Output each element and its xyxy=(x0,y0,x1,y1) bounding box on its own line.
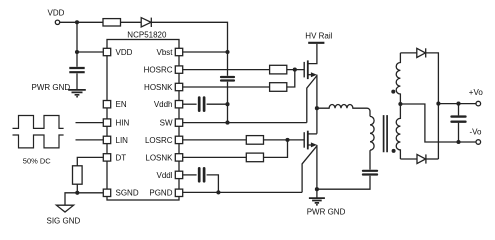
wire bootstrap cap to Vddh node xyxy=(227,82,229,105)
node secondary center tap xyxy=(398,102,402,106)
drain stub xyxy=(308,44,317,64)
svg-text:50% DC: 50% DC xyxy=(23,156,52,165)
wire Vddh pin to cap xyxy=(183,103,197,105)
capacitor bootstrap Vbst-SW xyxy=(221,77,234,81)
svg-text:HV Rail: HV Rail xyxy=(305,31,332,40)
pin DT xyxy=(103,154,110,161)
wire HOSRC resistor to gate node xyxy=(287,69,304,71)
wire VDD terminal to resistor xyxy=(60,21,103,23)
node output cap top xyxy=(456,102,460,106)
svg-text:HOSNK: HOSNK xyxy=(144,83,173,92)
wire Vddh cap to node xyxy=(207,103,228,105)
wire bypass cap to PWR GND xyxy=(76,73,78,89)
svg-text:HIN: HIN xyxy=(116,119,130,128)
node Vddl cap on PGND line xyxy=(216,190,220,194)
wire SW pin to high-side source leg xyxy=(183,122,307,124)
wire HOSNK resistor up to gate node xyxy=(287,70,295,87)
wire Vddl pin to cap xyxy=(183,174,197,176)
pin VDD xyxy=(103,48,110,55)
wire Vddh node to SW line xyxy=(227,104,229,122)
wire PGND pin to low-side source leg xyxy=(183,191,302,193)
pin LOSRC xyxy=(175,136,182,143)
wire +Vo line xyxy=(438,103,476,105)
transistor Q2 low-side MOSFET xyxy=(302,131,317,193)
polarity dot lower winding xyxy=(392,149,396,153)
svg-text:PWR GND: PWR GND xyxy=(32,83,71,92)
signal source HIN square wave xyxy=(13,116,64,129)
resistor LOSRC gate xyxy=(246,136,263,145)
source diagonal lead xyxy=(307,76,317,123)
channel bar xyxy=(307,60,309,79)
resistor HOSNK gate xyxy=(270,83,287,92)
transformer core xyxy=(384,115,388,152)
node +Vo rail junction xyxy=(436,102,440,106)
wire resistor to bootstrap diode xyxy=(121,21,142,23)
node -Vo terminal xyxy=(476,140,481,145)
wire Vbst pin to bootstrap node xyxy=(183,51,228,53)
ground PWR GND (left) xyxy=(68,90,86,97)
pin HIN xyxy=(103,119,110,126)
diode bootstrap xyxy=(141,18,151,27)
svg-text:DT: DT xyxy=(116,153,127,162)
wire LIN xyxy=(76,139,104,141)
source stub with arrow xyxy=(308,74,312,76)
pin Vbst xyxy=(175,48,182,55)
pin SGND xyxy=(103,189,110,196)
capacitor Vddl decoupling xyxy=(199,168,204,181)
svg-text:LIN: LIN xyxy=(116,136,129,145)
wire LOSRC resistor to gate node xyxy=(264,139,305,141)
wire low-side source to ground xyxy=(316,145,318,189)
gate bar xyxy=(303,62,305,78)
resistor VDD bootstrap series xyxy=(103,19,121,26)
wire VDD rail down to VDD pin xyxy=(76,22,78,52)
drain stub xyxy=(308,133,317,135)
node Vddh junction xyxy=(225,102,229,106)
svg-text:Vddl: Vddl xyxy=(156,171,172,180)
wire LOSRC pin to gate resistor xyxy=(183,139,247,141)
svg-text:HOSRC: HOSRC xyxy=(144,66,173,75)
wire DT pin to dead-time resistor xyxy=(77,157,103,165)
power rail HV Rail bar xyxy=(308,42,324,44)
pin Vddh xyxy=(175,101,182,108)
wire top diode to +Vo rail xyxy=(426,53,439,159)
pin LIN xyxy=(103,136,110,143)
diode rectifier bottom xyxy=(417,154,426,163)
wire LOSNK resistor up to gate node xyxy=(264,140,288,158)
wire output cap bottom leg xyxy=(458,123,460,142)
node Vbst junction xyxy=(225,50,229,54)
pin PGND xyxy=(175,189,182,196)
wire Vddl cap to PGND line xyxy=(207,175,219,193)
wire lower winding to rectifier diode xyxy=(400,158,417,160)
transformer secondary lower winding xyxy=(396,104,400,159)
resistor dead-time xyxy=(73,166,83,184)
node SGND junction xyxy=(75,191,79,195)
node VDD pin junction xyxy=(75,50,79,54)
wire LOSNK pin to gate resistor xyxy=(183,156,247,158)
wire output cap top leg xyxy=(458,104,460,116)
wire VDD junction to bypass cap xyxy=(76,52,78,67)
wire SGND pin to SIG GND xyxy=(65,193,103,205)
pin LOSNK xyxy=(175,154,182,161)
pin SW xyxy=(175,119,182,126)
wire high-side source down to low-side drain xyxy=(316,75,318,134)
svg-text:PGND: PGND xyxy=(149,189,172,198)
diode rectifier top xyxy=(417,48,426,57)
capacitor output filter xyxy=(452,117,466,122)
svg-text:+Vo: +Vo xyxy=(469,88,484,97)
wire resonant cap up to primary xyxy=(369,150,371,169)
resistor LOSNK gate xyxy=(246,153,263,162)
capacitor VDD bypass xyxy=(69,68,84,72)
wire HIN xyxy=(76,122,104,124)
wire resistor to SGND wire xyxy=(76,184,78,193)
source stub with arrow xyxy=(308,144,312,146)
wire HOSNK pin to gate resistor xyxy=(183,86,270,88)
node SW inductor tap xyxy=(315,106,319,110)
ground SIG GND xyxy=(56,205,73,212)
wire HOSRC pin to gate resistor xyxy=(183,69,270,71)
ground PWR GND (right) xyxy=(309,198,325,205)
gate bar xyxy=(303,132,305,148)
svg-text:EN: EN xyxy=(116,100,127,109)
svg-text:NCP51820: NCP51820 xyxy=(127,30,167,39)
pin EN xyxy=(103,101,110,108)
signal source LIN square wave xyxy=(13,135,64,148)
source diagonal lead xyxy=(302,146,317,193)
svg-text:LOSRC: LOSRC xyxy=(145,136,173,145)
wire VDD junction to VDD pin xyxy=(77,51,103,53)
node low-side source ground xyxy=(315,187,319,191)
channel bar xyxy=(307,131,309,150)
pin Vddl xyxy=(175,171,182,178)
wire upper winding to rectifier diode xyxy=(400,52,416,54)
node high-side gate xyxy=(293,68,297,72)
node VDD rail junction xyxy=(75,20,79,24)
transformer secondary upper winding xyxy=(396,53,400,104)
svg-text:SW: SW xyxy=(160,119,173,128)
svg-text:LOSNK: LOSNK xyxy=(145,153,173,162)
wire bottom diode to +Vo rail xyxy=(426,158,439,160)
svg-text:VDD: VDD xyxy=(116,48,133,57)
svg-text:-Vo: -Vo xyxy=(470,128,483,137)
pin HOSNK xyxy=(175,83,182,90)
svg-text:SGND: SGND xyxy=(116,189,139,198)
node SW junction at cap leg xyxy=(225,121,229,125)
polarity dot upper winding xyxy=(391,90,395,94)
transistor Q1 high-side MOSFET xyxy=(304,44,317,123)
inductor resonant xyxy=(317,105,370,117)
pin HOSRC xyxy=(175,66,182,73)
capacitor Vddh decoupling xyxy=(199,98,204,111)
transformer primary winding xyxy=(370,116,374,150)
capacitor resonant series xyxy=(363,171,377,175)
wire center tap to -Vo line xyxy=(400,104,476,142)
svg-text:SIG GND: SIG GND xyxy=(47,216,81,225)
node low-side gate xyxy=(285,138,289,142)
svg-text:PWR GND: PWR GND xyxy=(307,208,346,217)
svg-text:Vbst: Vbst xyxy=(156,48,173,57)
wire diode to Vbst xyxy=(151,22,227,52)
wire ground stub xyxy=(316,189,318,197)
IC U1 NCP51820 xyxy=(107,40,179,201)
node VDD terminal xyxy=(55,20,59,24)
svg-text:Vddh: Vddh xyxy=(154,100,173,109)
svg-text:VDD: VDD xyxy=(48,9,65,18)
node output cap bottom xyxy=(456,140,460,144)
wire ground line to resonant cap xyxy=(317,176,370,190)
node +Vo terminal xyxy=(476,101,481,106)
wire Vbst node down to bootstrap cap xyxy=(227,52,229,76)
resistor HOSRC gate xyxy=(270,65,287,74)
